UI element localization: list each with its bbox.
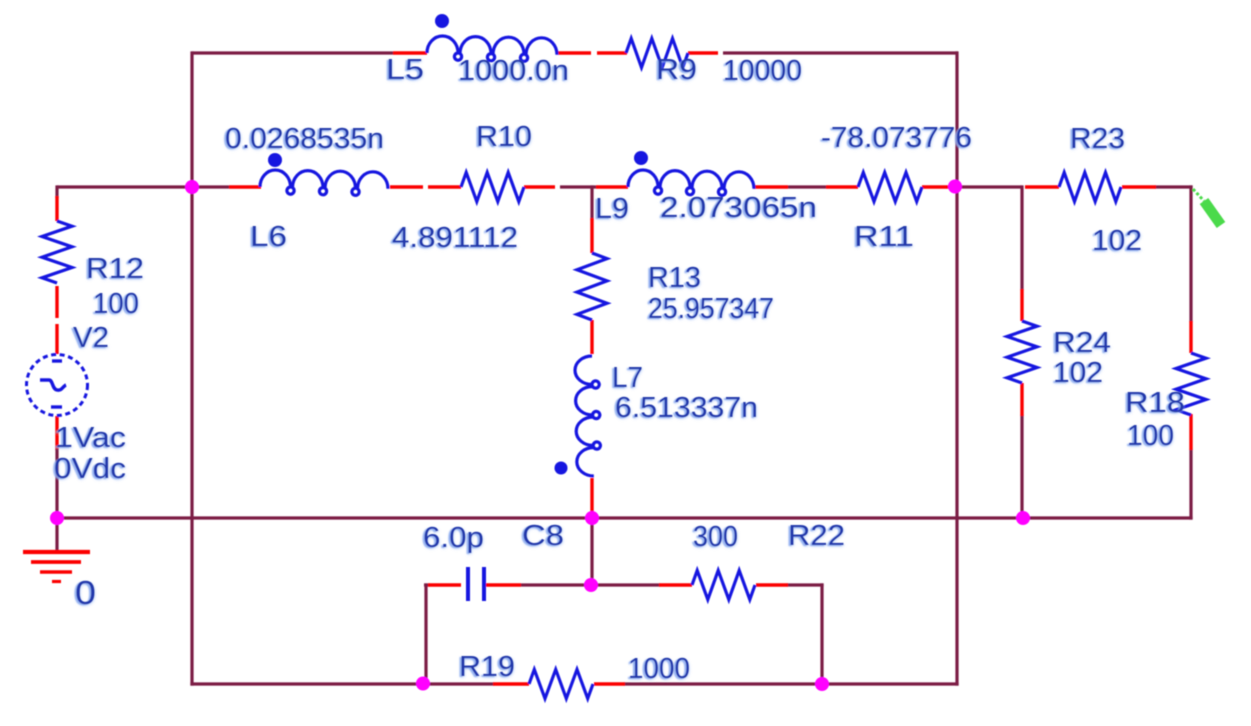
svg-text:R24: R24 (1053, 327, 1111, 359)
red pin lead L5 right (558, 51, 591, 54)
wire C8 loop left corner (424, 583, 430, 586)
red pin lead R18 bottom (1189, 414, 1192, 450)
red pin lead L9 right (753, 185, 788, 188)
wire row2 junction to R24 corner (949, 185, 1022, 188)
svg-text:1000.0n: 1000.0n (458, 55, 569, 87)
red pin lead R22 left (659, 583, 692, 586)
probe marker (green) (1193, 189, 1221, 225)
wire top-right segment (723, 51, 958, 54)
resistor R23 (1059, 173, 1121, 202)
wire bottom left of R19 (190, 682, 494, 685)
inductor L7 (575, 356, 600, 476)
wire C8 row right of R22 (787, 583, 824, 586)
red pin lead V2 bottom (55, 416, 58, 450)
wire row2 R10-L9 with T corner (560, 185, 596, 188)
node junction x1023 y518 (1016, 511, 1030, 525)
red pin lead R12 bottom a (55, 286, 58, 318)
red pin lead C8 right (486, 583, 521, 586)
svg-text:25.957347: 25.957347 (648, 293, 774, 325)
node junction x591 y585 (584, 578, 598, 592)
phase dot L9 (634, 151, 648, 165)
phase dot L6 (268, 153, 282, 167)
svg-text:R22: R22 (788, 520, 845, 552)
svg-text:1000: 1000 (628, 653, 690, 685)
phase dot L7 (555, 462, 568, 475)
wire L7 node down to C8 row (590, 517, 593, 586)
red pin lead L7 bottom (590, 478, 593, 514)
wire top-left segment (192, 51, 393, 54)
voltage source V2 (27, 355, 88, 416)
red pin lead R19 right (594, 682, 625, 685)
resistor R9 (626, 39, 688, 68)
red pin lead L6 left (229, 185, 261, 188)
svg-text:R12: R12 (86, 253, 144, 285)
svg-text:10000: 10000 (723, 55, 802, 87)
phase dot L5 (435, 14, 449, 28)
svg-text:L7: L7 (612, 362, 643, 394)
red pin lead L9 left (596, 185, 628, 188)
svg-text:C8: C8 (522, 520, 564, 552)
svg-text:R10: R10 (476, 121, 532, 153)
svg-text:100: 100 (1127, 420, 1174, 452)
node junction x192 y187 (185, 180, 199, 194)
red pin lead R11 left (826, 185, 858, 188)
wire R24 branch bottom (1020, 415, 1023, 520)
svg-text:R11: R11 (854, 221, 914, 253)
wire C8 loop left vertical (424, 583, 427, 685)
svg-text:100: 100 (93, 288, 139, 320)
red pin lead R13 top (590, 218, 593, 253)
wire ground stub (55, 518, 58, 551)
red pin lead R24 bottom (1020, 383, 1023, 416)
inductor L9 (628, 170, 754, 195)
svg-text:L5: L5 (386, 54, 424, 86)
svg-text:-78.073776: -78.073776 (821, 122, 972, 154)
resistor R12 (42, 221, 72, 283)
wire R18 branch bottom (1189, 449, 1192, 520)
svg-text:V2: V2 (73, 322, 109, 354)
svg-text:4.891112: 4.891112 (392, 222, 518, 254)
wire T corner down to R13 (590, 185, 593, 220)
svg-text:300: 300 (693, 521, 738, 553)
svg-text:2.073065n: 2.073065n (660, 192, 817, 224)
svg-text:R23: R23 (1070, 123, 1125, 155)
red pin lead R9 right (688, 51, 718, 54)
wire R18 branch top (1189, 185, 1192, 322)
svg-text:R18: R18 (1125, 387, 1185, 419)
wire left vertical x=192 (190, 51, 193, 685)
red pin lead R10 left (428, 185, 461, 188)
red pin lead R18 top (1189, 321, 1192, 353)
resistor R19 (529, 670, 593, 699)
wire R22 loop right vertical (820, 583, 823, 685)
wire row2 between L9 and R11 (788, 185, 826, 188)
red pin lead R9 left (597, 51, 627, 54)
wire bottom right of R19 (624, 682, 959, 685)
red pin lead R10 right (524, 185, 555, 188)
red pin lead R12 top (55, 196, 58, 221)
wire V2 to ground node (55, 449, 58, 520)
node junction x592 y518 (585, 511, 599, 525)
wire right vertical x=957 (955, 51, 958, 685)
svg-text:R13: R13 (648, 262, 701, 294)
red pin lead R19 left (493, 682, 529, 685)
wire row2 to R18 corner (1155, 185, 1193, 188)
svg-text:L6: L6 (250, 221, 287, 253)
resistor R10 (461, 173, 524, 202)
red pin lead R22 right (756, 583, 788, 586)
inductor L5 (427, 36, 557, 61)
red pin lead C8 left (428, 583, 461, 586)
node junction x955 y187 (948, 180, 962, 194)
svg-text:102: 102 (1092, 225, 1142, 257)
wire row3 horizontal y=518 (55, 516, 1192, 519)
resistor R13 (577, 253, 607, 320)
inductor L6 (260, 170, 388, 195)
node junction x822 y684 (815, 677, 829, 691)
red pin lead R24 top (1020, 289, 1023, 321)
ground (23, 552, 90, 582)
svg-text:R9: R9 (656, 54, 697, 86)
svg-text:L9: L9 (595, 193, 629, 225)
red pin lead L6 right (390, 185, 423, 188)
red pin lead R23 right (1122, 185, 1156, 188)
red pin lead V2 top (55, 324, 58, 354)
wire C8 row middle (521, 583, 660, 586)
node junction x423 y684 (416, 677, 430, 691)
wire R24 branch top (1020, 185, 1023, 290)
svg-text:102: 102 (1053, 357, 1103, 389)
node junction x57 y518 (ground) (50, 511, 64, 525)
red pin lead R11 right (922, 185, 950, 188)
svg-text:1Vac: 1Vac (55, 422, 126, 454)
svg-text:R19: R19 (459, 651, 515, 683)
svg-text:6.0p: 6.0p (423, 522, 484, 554)
svg-text:0: 0 (75, 574, 96, 611)
wire row2 from R12 corner to L6 (57, 185, 229, 188)
red pin lead R13 bottom (590, 320, 593, 354)
wire corner down to R12 (55, 185, 58, 198)
capacitor C8 (468, 567, 484, 601)
svg-text:0Vdc: 0Vdc (54, 453, 126, 485)
svg-text:6.513337n: 6.513337n (615, 392, 758, 424)
resistor R11 (858, 173, 922, 202)
svg-text:0.0268535n: 0.0268535n (225, 123, 384, 155)
red pin lead L5 left (393, 51, 427, 54)
red pin lead R23 left (1025, 185, 1059, 188)
resistor R24 (1007, 321, 1037, 383)
resistor R22 (692, 571, 755, 600)
resistor R18 (1176, 353, 1206, 415)
